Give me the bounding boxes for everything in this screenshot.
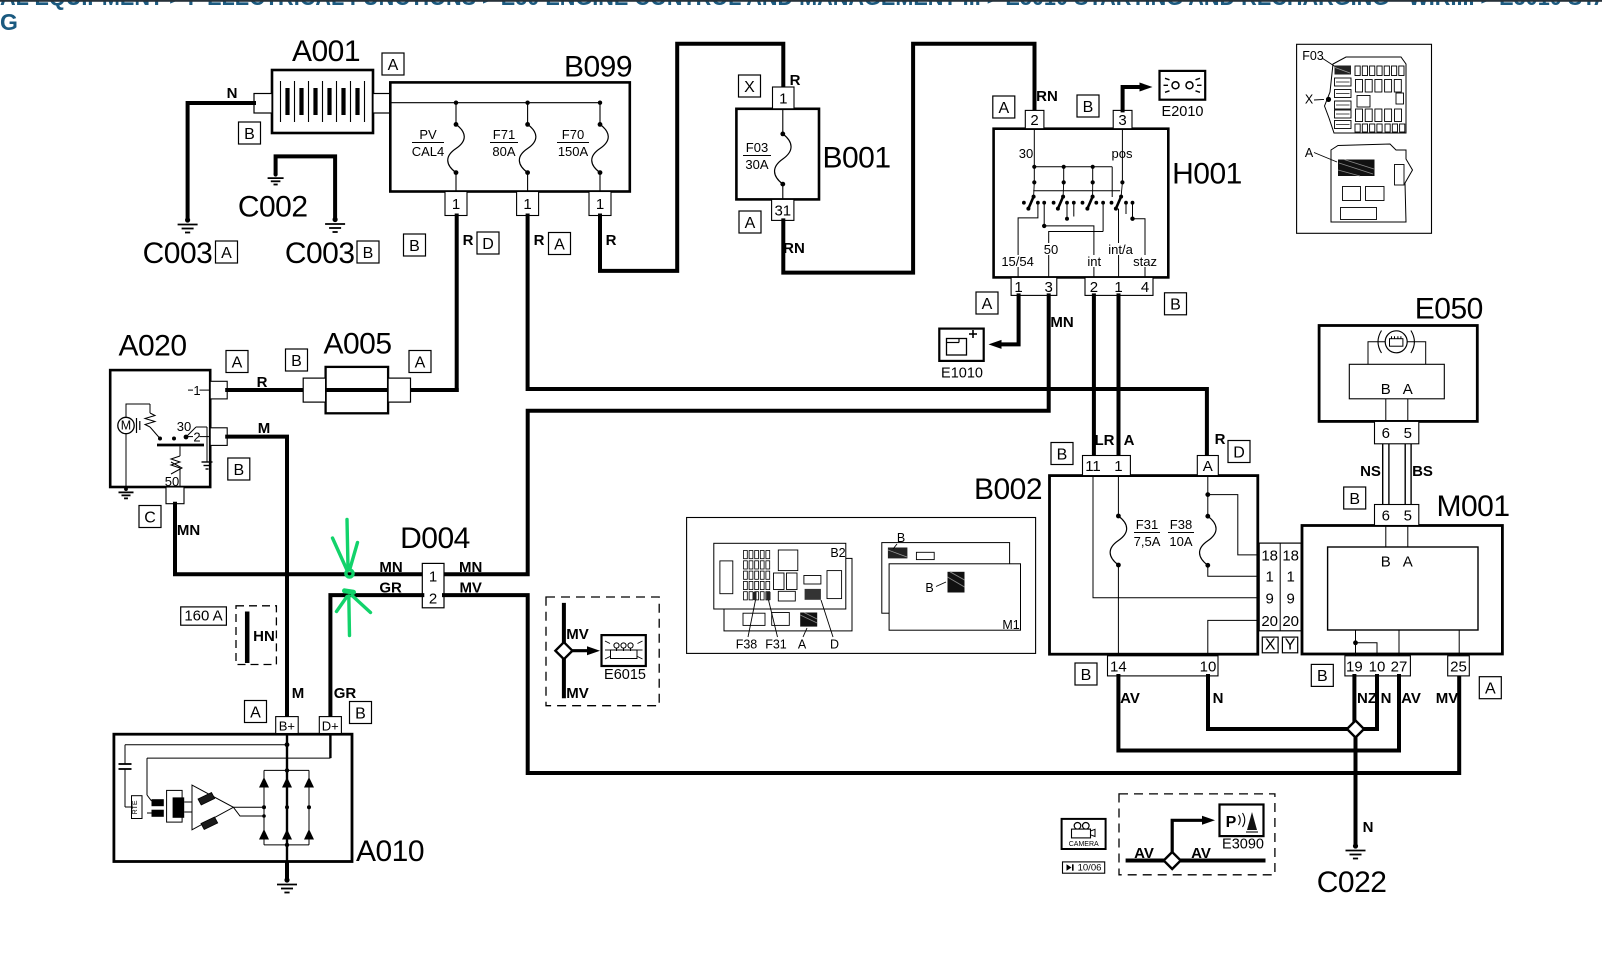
svg-text:20: 20 <box>1282 613 1299 630</box>
svg-text:B: B <box>291 353 302 370</box>
svg-text:HN: HN <box>253 628 275 645</box>
svg-text:A: A <box>998 100 1009 117</box>
svg-text:2: 2 <box>193 430 200 445</box>
pins 1 3 (H001 bottom) <box>1011 277 1057 295</box>
connector label A (A001) <box>382 53 404 75</box>
svg-text:B: B <box>1081 667 1092 684</box>
svg-text:PV: PV <box>419 127 437 142</box>
pin 1 (B099 right) <box>589 192 611 216</box>
svg-text:27: 27 <box>1391 658 1408 675</box>
svg-text:A: A <box>745 215 756 232</box>
svg-text:pos: pos <box>1112 146 1133 161</box>
svg-text:B: B <box>409 238 420 255</box>
svg-text:B+: B+ <box>279 718 295 733</box>
svg-text:11: 11 <box>1085 458 1101 475</box>
svg-text:CAL4: CAL4 <box>412 144 445 159</box>
connector label A (H001 top) <box>993 96 1015 118</box>
connector label A (H001 bottom) <box>976 292 998 314</box>
wire MN (H001-3 to D004) <box>444 295 1074 574</box>
connector label B (B002 bottom) <box>1075 663 1097 685</box>
connector label B (M001 bottom) <box>1311 664 1333 686</box>
svg-text:1: 1 <box>1287 569 1295 586</box>
pin 1 (B099 middle) <box>517 192 539 216</box>
lamp cluster E6015 (dashed inset) <box>546 597 659 706</box>
wire GR (A010 D+ to D004) <box>330 595 422 717</box>
svg-text:A: A <box>388 57 399 74</box>
svg-text:B: B <box>1170 297 1181 314</box>
svg-text:B: B <box>363 245 374 262</box>
svg-text:150A: 150A <box>558 144 589 159</box>
svg-text:18: 18 <box>1282 547 1299 564</box>
svg-text:1: 1 <box>1114 458 1122 475</box>
svg-text:A010: A010 <box>356 835 424 868</box>
pin 1 tab (A020) <box>210 381 227 399</box>
svg-text:MN: MN <box>177 522 200 539</box>
svg-text:RN: RN <box>783 240 805 257</box>
svg-text:9: 9 <box>1266 590 1274 607</box>
connector label A (B001) <box>739 211 761 233</box>
connector label B (A010) <box>350 702 372 724</box>
green arrow (down, at MN junction) <box>333 520 358 578</box>
svg-text:AV: AV <box>1191 845 1211 862</box>
svg-text:R: R <box>463 232 474 249</box>
svg-text:F03: F03 <box>1302 49 1324 63</box>
connector label X <box>1262 637 1278 654</box>
svg-text:A: A <box>798 638 807 652</box>
svg-text:C002: C002 <box>238 191 308 224</box>
wire R (A020-1 to B099-B) <box>227 374 457 391</box>
svg-text:F31: F31 <box>765 638 787 652</box>
svg-text:Y: Y <box>1285 637 1296 654</box>
svg-text:5: 5 <box>1404 425 1412 442</box>
pin 2 tab (A020) <box>210 428 227 446</box>
svg-text:P: P <box>1226 814 1237 831</box>
pins 2 1 4 (H001 bottom) <box>1085 277 1153 295</box>
pin A (B002 top) <box>1197 456 1218 476</box>
wire A (H001-1 to B002-1) <box>1119 295 1135 456</box>
wires NS BS (E050 to M001) <box>1360 444 1433 505</box>
pins 14 10 (B002 bottom) <box>1108 656 1219 676</box>
svg-text:F38: F38 <box>1170 517 1192 532</box>
svg-text:A: A <box>1305 146 1314 160</box>
lamp E2010 <box>1123 71 1206 120</box>
svg-text:1: 1 <box>1114 279 1122 296</box>
svg-text:B2: B2 <box>830 546 845 560</box>
svg-text:1: 1 <box>452 196 460 213</box>
svg-text:B001: B001 <box>822 142 890 175</box>
svg-text:N: N <box>227 85 238 102</box>
wire RN (B001 to H001) <box>783 44 1058 273</box>
svg-text:20: 20 <box>1261 613 1278 630</box>
svg-text:LR: LR <box>1095 432 1115 449</box>
connector label A (A010) <box>245 701 267 723</box>
svg-text:1: 1 <box>193 383 200 398</box>
svg-text:AV: AV <box>1401 690 1421 707</box>
svg-text:C003: C003 <box>285 237 355 270</box>
fuse B001 (F03 30A) <box>736 109 890 200</box>
svg-text:2: 2 <box>1030 112 1038 129</box>
svg-text:D004: D004 <box>400 522 470 555</box>
battery A001 <box>254 35 390 133</box>
connector label A (A005 right) <box>409 351 431 373</box>
connector label B (A005) <box>286 349 308 371</box>
svg-text:B: B <box>897 531 905 545</box>
svg-text:NS: NS <box>1360 463 1381 480</box>
wire N <box>188 85 254 219</box>
control unit M001 <box>1302 490 1510 656</box>
svg-text:80A: 80A <box>492 144 515 159</box>
svg-text:E2010: E2010 <box>1162 104 1204 120</box>
svg-text:C003: C003 <box>143 237 213 270</box>
pins 11 1 (B002 top) <box>1083 456 1131 476</box>
svg-text:D: D <box>482 236 494 253</box>
svg-text:10A: 10A <box>1169 534 1192 549</box>
camera icon <box>1062 819 1106 849</box>
svg-text:50: 50 <box>1044 242 1058 257</box>
svg-text:F71: F71 <box>493 127 515 142</box>
svg-text:MN: MN <box>379 559 402 576</box>
svg-text:1: 1 <box>779 90 787 107</box>
svg-text:R: R <box>606 232 617 249</box>
svg-text:25: 25 <box>1450 658 1467 675</box>
svg-text:B: B <box>1057 446 1068 463</box>
svg-text:3: 3 <box>1045 279 1053 296</box>
junction (N wires) <box>1347 721 1364 738</box>
svg-text:R: R <box>790 72 801 89</box>
connector label B (H001 top) <box>1077 95 1099 117</box>
pin D+ (A010) <box>319 717 341 734</box>
svg-text:A: A <box>1403 381 1413 398</box>
svg-text:D+: D+ <box>322 718 339 733</box>
inline connector A005 <box>303 328 410 414</box>
ground C002 <box>268 172 284 184</box>
connector label X (B001) <box>739 75 761 97</box>
wire C002 <box>238 156 335 223</box>
connector label D (B002 top) <box>1228 441 1250 463</box>
wire R (B099-B to A005) <box>457 216 474 391</box>
svg-text:M001: M001 <box>1436 490 1509 523</box>
pin 25 (M001 bottom) <box>1448 656 1470 676</box>
svg-text:1: 1 <box>523 196 531 213</box>
svg-text:A005: A005 <box>323 328 391 361</box>
svg-text:A001: A001 <box>292 35 360 68</box>
wire R (B099-D to B002-A) <box>528 216 1226 457</box>
svg-text:RN: RN <box>1036 88 1058 105</box>
svg-text:MV: MV <box>1436 690 1459 707</box>
svg-text:15/54: 15/54 <box>1001 254 1034 269</box>
svg-text:N: N <box>1381 690 1392 707</box>
svg-text:B: B <box>233 462 244 479</box>
wire MV label (M001-25) <box>1436 690 1459 707</box>
svg-text:G: G <box>0 9 18 35</box>
svg-text:B: B <box>1381 381 1391 398</box>
svg-text:int: int <box>1087 254 1101 269</box>
svg-text:CAMERA: CAMERA <box>1069 841 1099 848</box>
svg-text:D: D <box>1233 444 1245 461</box>
svg-text:R: R <box>534 232 545 249</box>
svg-text:A: A <box>1485 680 1496 697</box>
wire MV (D004 to M001-25) <box>444 595 1459 773</box>
connector label B (A001) <box>239 122 261 144</box>
svg-text:X: X <box>744 79 755 96</box>
svg-text:M: M <box>292 685 305 702</box>
svg-text:X: X <box>1305 93 1314 107</box>
svg-text:A: A <box>1403 554 1413 571</box>
svg-text:A: A <box>982 296 993 313</box>
svg-text:5: 5 <box>1404 507 1412 524</box>
svg-text:2: 2 <box>1090 279 1098 296</box>
svg-text:B: B <box>925 581 933 595</box>
connector label C (A020) <box>139 506 161 528</box>
svg-text:A: A <box>554 236 565 253</box>
ignition switch H001 <box>994 129 1242 278</box>
junction D004 <box>379 522 482 608</box>
connector label B (B099) <box>404 234 426 256</box>
body computer B002 <box>974 473 1259 656</box>
svg-text:M: M <box>258 420 271 437</box>
svg-text:1: 1 <box>1014 279 1022 296</box>
svg-text:C022: C022 <box>1317 866 1387 899</box>
alternator A010 <box>114 734 424 869</box>
instrument module E050 <box>1319 293 1483 422</box>
svg-text:4: 4 <box>1141 279 1149 296</box>
wire R (B099-A to B001) <box>600 44 801 271</box>
svg-text:MV: MV <box>566 685 589 702</box>
connector label B (M001 left) <box>1344 487 1366 509</box>
svg-text:N: N <box>1213 690 1224 707</box>
pin 3 (H001 top) <box>1113 110 1132 129</box>
svg-text:M1: M1 <box>1002 618 1019 632</box>
ground (A010) <box>277 877 297 892</box>
pins 6 5 (M001 top) <box>1375 505 1419 526</box>
connector label B (H001 bottom) <box>1165 293 1187 315</box>
svg-text:7,5A: 7,5A <box>1134 534 1161 549</box>
pins 6 5 (E050) <box>1375 421 1419 443</box>
svg-text:F38: F38 <box>736 638 758 652</box>
svg-text:R: R <box>257 374 268 391</box>
svg-text:E1010: E1010 <box>941 366 983 382</box>
svg-text:N: N <box>1363 819 1374 836</box>
ground C022 <box>1317 843 1387 899</box>
pin 31 (B001) <box>772 199 794 220</box>
svg-text:A020: A020 <box>118 330 186 363</box>
svg-text:B: B <box>1083 99 1094 116</box>
label 160 A <box>181 607 227 625</box>
fuse box location inset (F03 X A) <box>1297 44 1432 233</box>
svg-text:A: A <box>221 245 232 262</box>
svg-text:14: 14 <box>1110 658 1127 675</box>
pin 1 (B001) <box>773 87 795 109</box>
wire to ground (A010) <box>285 862 289 880</box>
svg-text:M: M <box>121 418 131 432</box>
svg-text:1: 1 <box>1266 569 1274 586</box>
svg-text:BS: BS <box>1412 463 1433 480</box>
svg-text:B: B <box>355 705 366 722</box>
svg-text:3: 3 <box>1118 112 1126 129</box>
svg-text:1: 1 <box>429 569 437 586</box>
svg-text:A: A <box>250 704 261 721</box>
connector label Y <box>1282 637 1297 654</box>
wire LR (H001-2 to B002-11) <box>1094 295 1115 456</box>
wire N (junction to M001-10) <box>1363 676 1391 729</box>
connector label D (B099) <box>477 232 499 254</box>
svg-text:A: A <box>415 354 426 371</box>
breadcrumb navigation text <box>0 0 1602 35</box>
svg-text:B: B <box>1317 668 1328 685</box>
svg-text:A: A <box>1203 458 1213 475</box>
svg-text:10/06: 10/06 <box>1078 862 1102 873</box>
svg-text:F31: F31 <box>1136 517 1158 532</box>
svg-text:E3090: E3090 <box>1222 837 1264 853</box>
svg-text:30A: 30A <box>745 157 768 172</box>
pins 19 10 27 (M001 bottom) <box>1345 656 1411 676</box>
connector label B (B002 top) <box>1051 443 1073 465</box>
battery symbol E1010 <box>939 295 1018 381</box>
wire N (B002-10 to junction) <box>1208 676 1348 729</box>
connector label A (M001 bottom) <box>1479 677 1501 699</box>
green arrow (up, at GR corner) <box>337 591 371 636</box>
svg-text:9: 9 <box>1287 590 1295 607</box>
pin C tab (A020) <box>166 487 184 504</box>
svg-text:B: B <box>1349 491 1360 508</box>
pin 1 (B099 left) <box>445 192 467 216</box>
ground C003 A <box>143 217 213 270</box>
connector label B (C003) <box>357 241 379 263</box>
ground (A020 motor) <box>119 487 134 498</box>
svg-text:31: 31 <box>774 202 791 219</box>
svg-text:6: 6 <box>1382 507 1390 524</box>
pin 2 (H001 top) <box>1025 110 1044 129</box>
parking sensor E3090 (dashed inset) <box>1119 794 1275 875</box>
svg-text:MN: MN <box>459 559 482 576</box>
wire MN (A020-C to D004) <box>175 504 422 575</box>
svg-text:30: 30 <box>1019 146 1033 161</box>
fuse box B099 <box>390 51 632 192</box>
svg-text:A: A <box>232 354 243 371</box>
svg-text:GR: GR <box>334 685 357 702</box>
svg-text:19: 19 <box>1346 658 1363 675</box>
svg-text:X: X <box>1265 637 1276 654</box>
ground C003 B <box>285 217 355 270</box>
starter motor A020 <box>110 330 212 490</box>
svg-text:staz: staz <box>1133 254 1157 269</box>
svg-text:D: D <box>830 638 839 652</box>
svg-text:1: 1 <box>596 196 604 213</box>
svg-text:E050: E050 <box>1415 293 1483 326</box>
date marker 10/06 <box>1063 862 1105 874</box>
svg-text:E6015: E6015 <box>604 667 646 683</box>
connector pins 18 1 9 20 (B002-M001) <box>1259 543 1327 631</box>
svg-text:30: 30 <box>177 419 191 434</box>
svg-text:B: B <box>1381 554 1391 571</box>
svg-text:B099: B099 <box>564 51 632 84</box>
fusible link HN <box>236 606 276 665</box>
svg-text:int/a: int/a <box>1108 242 1133 257</box>
svg-text:10: 10 <box>1369 658 1386 675</box>
svg-text:F03: F03 <box>746 140 768 155</box>
svg-text:160 A: 160 A <box>184 608 222 625</box>
wire NZ (M001-19 to junction) <box>1354 676 1377 721</box>
svg-text:18: 18 <box>1261 547 1278 564</box>
connector label A (B099) <box>549 233 571 255</box>
svg-text:6: 6 <box>1382 425 1390 442</box>
svg-text:RTE: RTE <box>132 800 139 814</box>
svg-text:AV: AV <box>1120 690 1140 707</box>
pin B+ (A010) <box>276 717 299 734</box>
connector label A (A020 pin1) <box>226 351 248 373</box>
svg-text:10: 10 <box>1200 658 1217 675</box>
svg-text:NZ: NZ <box>1357 690 1377 707</box>
wire AV (B002-14 to M001-27) <box>1118 676 1420 751</box>
svg-text:C: C <box>144 509 156 526</box>
wire M (A020-2 to A010 B+) <box>227 420 304 717</box>
svg-text:2: 2 <box>429 591 437 608</box>
svg-text:AV: AV <box>1134 845 1154 862</box>
svg-text:R: R <box>1215 431 1226 448</box>
svg-text:B: B <box>244 126 255 143</box>
svg-text:H001: H001 <box>1172 158 1242 191</box>
svg-text:MN: MN <box>1050 314 1073 331</box>
wire N (junction to ground C022) <box>1356 737 1374 845</box>
svg-text:B002: B002 <box>974 473 1042 506</box>
svg-text:A: A <box>1124 432 1135 449</box>
connector label B (A020) <box>228 458 250 480</box>
fuse panel location inset (B2 M1) <box>687 518 1036 654</box>
connector label A (C003) <box>216 241 238 263</box>
svg-text:MV: MV <box>566 626 589 643</box>
svg-text:F70: F70 <box>562 127 584 142</box>
